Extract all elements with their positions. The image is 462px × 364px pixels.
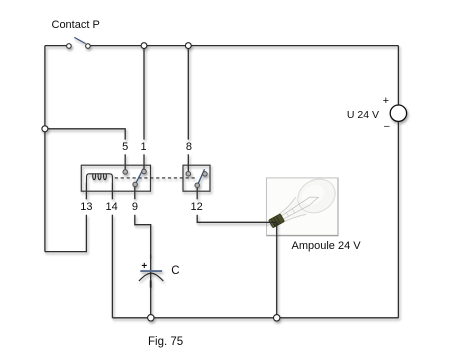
lamp bulb photo drawing — [262, 173, 341, 236]
label Contact P — [52, 20, 100, 31]
pin 9 contact — [133, 182, 138, 187]
lamp photo frame — [267, 178, 339, 236]
node top 8 — [185, 43, 191, 49]
pin NC contact — [203, 172, 208, 177]
wire pin 14 stub — [111, 183, 113, 200]
wire pin 12 stub below — [196, 188, 198, 200]
contact P right terminal — [86, 44, 91, 49]
armature contact 9-1 — [136, 169, 143, 183]
node A left — [42, 126, 48, 132]
wire top right — [90, 45, 398, 47]
wire right vertical lower — [397, 121, 399, 317]
pin 8 contact — [186, 171, 191, 176]
wire pin 8 vertical — [187, 46, 189, 140]
capacitor lead thick lower — [150, 280, 152, 287]
pin 12 contact — [195, 183, 200, 188]
wire pin 8 stub — [187, 154, 189, 171]
wire lamp to bottom node — [276, 223, 278, 318]
node bottom capacitor — [148, 315, 154, 321]
node bottom lamp — [274, 315, 280, 321]
wire left vertical — [44, 46, 46, 252]
label pin 5 — [115, 142, 135, 153]
label pin 14 — [100, 202, 124, 213]
label capacitor C — [171, 266, 179, 278]
label source plus — [378, 96, 394, 107]
capacitor C bottom plate — [139, 273, 163, 281]
wire bottom loop to pin 13 — [45, 215, 87, 252]
wire pin 1 vertical — [143, 46, 145, 140]
label pin 13 — [74, 202, 98, 213]
wire pin 9 to capacitor — [135, 215, 151, 318]
pin 1 contact — [142, 169, 147, 174]
mechanical link dashed — [115, 177, 196, 179]
relay coil — [87, 174, 113, 183]
capacitor lead thick upper — [150, 255, 152, 259]
label U 24 V — [319, 110, 379, 121]
contact P lever — [74, 37, 85, 43]
relay box right — [183, 165, 210, 191]
source U1 circle — [390, 105, 406, 121]
node top 1 — [141, 43, 147, 49]
contact P left terminal — [67, 44, 72, 49]
wire pin 12 to lamp — [197, 215, 277, 223]
wire node A to pin 5 — [45, 129, 125, 140]
armature contact 12 — [198, 169, 204, 183]
pin 5 contact — [123, 170, 128, 175]
wire right vertical upper — [397, 46, 399, 106]
wire top left — [45, 45, 67, 47]
label capacitor plus — [136, 262, 152, 272]
label pin 12 — [185, 202, 209, 213]
relay box left — [81, 165, 150, 191]
capacitor C top plate — [140, 270, 162, 272]
label Ampoule 24 V — [292, 241, 361, 252]
wire pin 9 stub below — [134, 187, 136, 200]
wire bottom — [112, 317, 398, 319]
label source minus — [379, 122, 395, 132]
wire pin 14 down — [111, 215, 113, 318]
wire pin 1 stub — [143, 154, 145, 169]
wire pin 13 stub — [85, 183, 87, 200]
label pin 8 — [179, 142, 199, 153]
wire pin 5 stub — [124, 154, 126, 169]
label Fig. 75 — [148, 337, 183, 349]
label pin 1 — [134, 142, 154, 153]
label pin 9 — [125, 202, 145, 213]
